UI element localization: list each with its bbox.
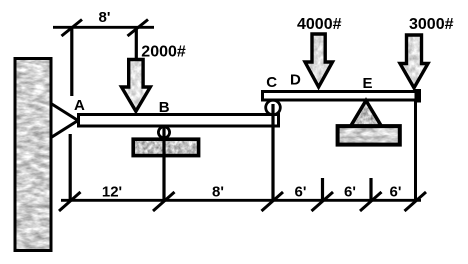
extension line below left top tick (down to A) bbox=[70, 28, 73, 96]
bottom tick at right end bbox=[405, 192, 427, 211]
pin / extension line through B down to dimension line bbox=[162, 127, 165, 201]
division stub at D bbox=[321, 178, 324, 201]
bottom dimension line bbox=[61, 199, 421, 202]
extension line from beam 2 right end down bbox=[414, 101, 417, 201]
svg-text:D: D bbox=[290, 71, 301, 88]
load arrow 4000# bbox=[305, 34, 333, 87]
load line 2000 thin shaft bbox=[135, 28, 138, 60]
bottom tick at C bbox=[262, 192, 284, 211]
division stub at E bbox=[369, 178, 372, 201]
beam 2 right end cap bbox=[415, 89, 422, 103]
svg-text:12': 12' bbox=[102, 183, 122, 200]
roller circle at B bbox=[158, 127, 169, 138]
svg-text:2000#: 2000# bbox=[141, 44, 186, 61]
bottom tick at D point bbox=[312, 192, 334, 211]
svg-text:6': 6' bbox=[390, 183, 402, 200]
top tick right bbox=[128, 20, 149, 37]
load arrow 3000# bbox=[400, 35, 428, 88]
top tick left bbox=[62, 20, 83, 37]
support block at B bbox=[133, 139, 198, 155]
svg-text:A: A bbox=[74, 97, 85, 114]
bottom tick at E point bbox=[360, 192, 382, 211]
svg-text:E: E bbox=[363, 75, 373, 92]
beam 2 (C to right end upper beam) bbox=[263, 92, 420, 101]
svg-text:B: B bbox=[159, 99, 170, 116]
svg-text:6': 6' bbox=[344, 183, 356, 200]
svg-text:8': 8' bbox=[212, 183, 224, 200]
pin / extension line through C down to dimension line bbox=[271, 104, 274, 201]
load arrow 2000# bbox=[122, 60, 151, 112]
hinge circle at C bbox=[266, 100, 281, 115]
support block at E bbox=[338, 126, 400, 145]
support bracket at A (triangle from wall to beam) bbox=[51, 104, 78, 138]
beam 1 (A to C lower beam) bbox=[79, 115, 279, 127]
support triangle at E bbox=[350, 101, 383, 129]
svg-text:6': 6' bbox=[295, 183, 307, 200]
svg-text:3000#: 3000# bbox=[409, 16, 454, 33]
bottom tick at A bbox=[59, 192, 81, 211]
top dimension line (8 ft) bbox=[53, 26, 154, 29]
svg-text:C: C bbox=[266, 74, 277, 91]
svg-text:8': 8' bbox=[99, 9, 111, 26]
bottom tick at B bbox=[153, 192, 175, 211]
wall (fixed support, hatched concrete) bbox=[15, 59, 51, 251]
svg-text:4000#: 4000# bbox=[297, 16, 342, 33]
extension line below A (beam to dimension line) bbox=[69, 134, 72, 201]
